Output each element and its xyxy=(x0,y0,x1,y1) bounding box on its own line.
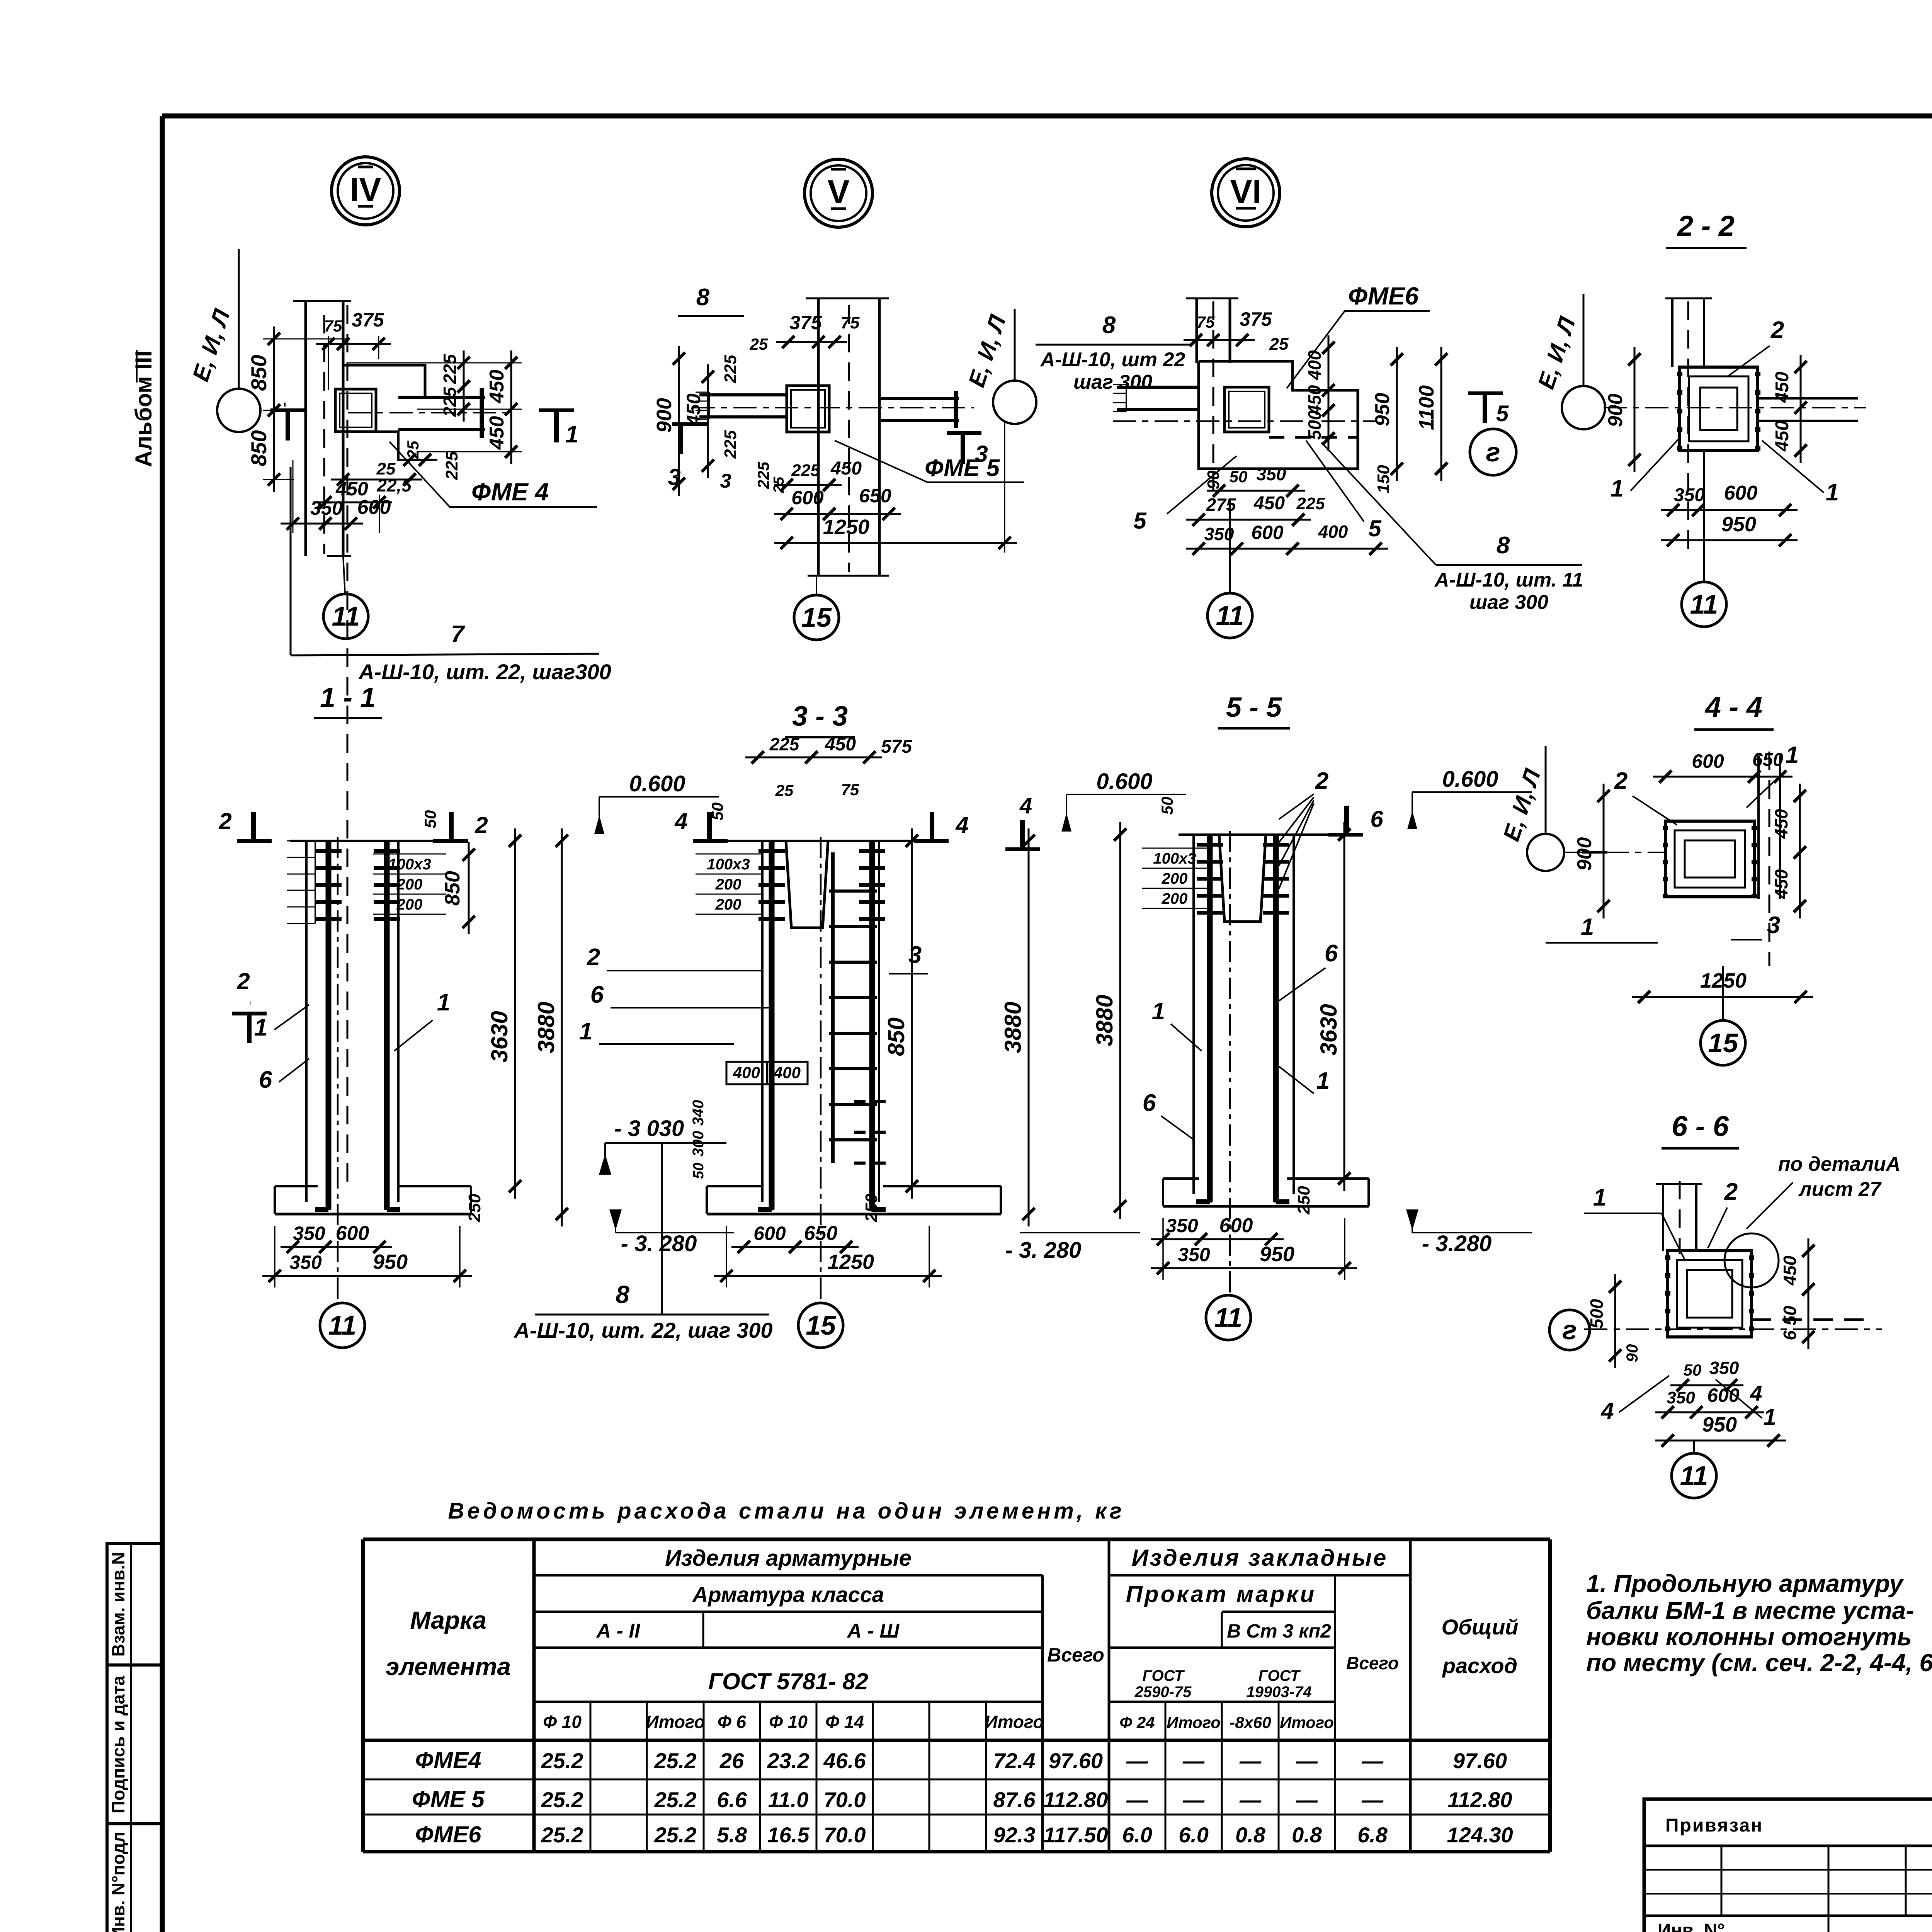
detail IV plan xyxy=(304,301,307,556)
svg-text:5: 5 xyxy=(1368,515,1382,541)
svg-text:75: 75 xyxy=(841,313,860,332)
svg-text:450: 450 xyxy=(1253,493,1285,514)
steel table grid xyxy=(363,1537,1550,1541)
svg-text:6.0: 6.0 xyxy=(1179,1823,1209,1847)
svg-text:ФМЕ 5: ФМЕ 5 xyxy=(925,455,1000,481)
svg-text:6.0: 6.0 xyxy=(1122,1823,1152,1847)
svg-text:2: 2 xyxy=(587,944,600,971)
svg-text:124.30: 124.30 xyxy=(1447,1823,1513,1847)
detail 2-2 dims xyxy=(1634,347,1636,472)
svg-text:600: 600 xyxy=(357,496,391,519)
svg-text:450: 450 xyxy=(486,416,508,450)
svg-text:7: 7 xyxy=(451,621,465,648)
svg-text:3880: 3880 xyxy=(1000,1002,1026,1053)
section 5-5 body xyxy=(1179,833,1355,836)
svg-text:2: 2 xyxy=(474,812,488,838)
svg-text:4: 4 xyxy=(955,812,968,838)
svg-text:шаг 300: шаг 300 xyxy=(1469,591,1548,614)
detail 6-6 dims xyxy=(1614,1274,1616,1368)
svg-text:—: — xyxy=(1239,1787,1262,1812)
svg-text:11: 11 xyxy=(1690,589,1718,619)
svg-text:350: 350 xyxy=(310,497,343,519)
svg-text:—: — xyxy=(1182,1748,1205,1773)
svg-text:4: 4 xyxy=(1019,793,1032,818)
svg-text:Ф 14: Ф 14 xyxy=(825,1712,864,1732)
svg-text:0.600: 0.600 xyxy=(1442,767,1498,792)
svg-text:200: 200 xyxy=(1162,890,1188,907)
svg-text:1100: 1100 xyxy=(1415,385,1438,430)
svg-text:26: 26 xyxy=(719,1748,744,1773)
svg-text:8: 8 xyxy=(616,1281,629,1308)
svg-text:275: 275 xyxy=(1206,495,1236,515)
left stamp boxes xyxy=(107,1544,162,1932)
svg-text:25: 25 xyxy=(1269,335,1289,354)
detail V dims xyxy=(776,341,847,343)
svg-text:950: 950 xyxy=(1260,1243,1294,1266)
svg-text:850: 850 xyxy=(247,355,271,391)
svg-text:2: 2 xyxy=(236,968,250,994)
svg-text:2: 2 xyxy=(218,808,231,834)
svg-text:0.8: 0.8 xyxy=(1292,1823,1322,1847)
svg-text:-8х60: -8х60 xyxy=(1230,1713,1271,1731)
svg-text:шаг 300: шаг 300 xyxy=(1073,371,1152,393)
svg-text:5: 5 xyxy=(1133,508,1147,534)
privyazan table xyxy=(1644,1799,1932,1932)
svg-text:1250: 1250 xyxy=(823,515,869,539)
svg-text:- 3.280: - 3.280 xyxy=(1422,1231,1492,1256)
svg-text:Ф 10: Ф 10 xyxy=(769,1712,808,1732)
svg-text:- 3 030: - 3 030 xyxy=(614,1116,684,1141)
svg-text:1. Продольную арматуру: 1. Продольную арматуру xyxy=(1586,1570,1904,1597)
svg-text:Альбом III: Альбом III xyxy=(131,350,156,467)
svg-text:Инв. N°подл: Инв. N°подл xyxy=(108,1832,128,1932)
svg-text:23.2: 23.2 xyxy=(767,1748,810,1773)
svg-text:1: 1 xyxy=(1611,475,1624,502)
detail IV axis circle E,I,L xyxy=(217,389,260,432)
svg-text:Прокат марки: Прокат марки xyxy=(1126,1581,1316,1607)
svg-text:Ф 24: Ф 24 xyxy=(1119,1713,1155,1731)
svg-text:2: 2 xyxy=(1614,768,1628,794)
svg-text:450: 450 xyxy=(683,393,704,426)
svg-text:375: 375 xyxy=(1240,308,1272,330)
svg-text:—: — xyxy=(1182,1787,1205,1812)
svg-text:5 - 5: 5 - 5 xyxy=(1226,692,1282,723)
svg-text:25.2: 25.2 xyxy=(654,1823,697,1847)
svg-text:—: — xyxy=(1361,1748,1384,1773)
svg-text:ФМЕ 4: ФМЕ 4 xyxy=(471,478,549,506)
svg-text:850: 850 xyxy=(883,1017,909,1056)
circle 11 under 6-6 xyxy=(1672,1453,1716,1498)
svg-text:Итого: Итого xyxy=(646,1712,705,1732)
svg-text:1: 1 xyxy=(1581,914,1594,940)
svg-text:15: 15 xyxy=(1708,1028,1738,1058)
svg-text:600: 600 xyxy=(753,1223,786,1244)
svg-text:100х3: 100х3 xyxy=(707,856,750,873)
svg-text:8: 8 xyxy=(1102,312,1116,338)
svg-text:IV: IV xyxy=(350,171,381,208)
svg-text:600: 600 xyxy=(336,1222,369,1245)
svg-text:г: г xyxy=(1562,1315,1577,1345)
svg-text:200: 200 xyxy=(396,896,423,913)
svg-text:50: 50 xyxy=(708,803,726,821)
svg-text:Итого: Итого xyxy=(1280,1713,1334,1731)
svg-text:900: 900 xyxy=(1604,394,1627,427)
circle g xyxy=(1470,429,1516,475)
svg-text:8: 8 xyxy=(1497,532,1510,559)
svg-text:150: 150 xyxy=(1374,465,1393,493)
svg-text:Привязан: Привязан xyxy=(1665,1815,1763,1836)
section 1-1 body xyxy=(290,840,460,842)
svg-text:400: 400 xyxy=(1304,350,1325,380)
svg-text:450: 450 xyxy=(1772,420,1793,452)
svg-text:225: 225 xyxy=(1296,494,1325,513)
detail 4-4 axis circle xyxy=(1527,834,1564,871)
svg-text:ГОСТ: ГОСТ xyxy=(1143,1667,1185,1684)
svg-text:25.2: 25.2 xyxy=(654,1787,697,1812)
svg-text:1: 1 xyxy=(1316,1068,1330,1094)
svg-text:600: 600 xyxy=(1251,522,1284,543)
circle g (6-6) xyxy=(1549,1310,1590,1350)
svg-text:350: 350 xyxy=(1667,1388,1695,1407)
svg-text:расход: расход xyxy=(1442,1653,1517,1678)
svg-text:0.8: 0.8 xyxy=(1235,1823,1266,1847)
svg-text:25.2: 25.2 xyxy=(654,1748,697,1773)
svg-text:87.6: 87.6 xyxy=(993,1787,1036,1812)
svg-text:70.0: 70.0 xyxy=(824,1787,866,1812)
svg-text:6: 6 xyxy=(1370,806,1383,832)
svg-text:А-Ш-10, шт 22: А-Ш-10, шт 22 xyxy=(1040,349,1185,371)
svg-text:ФМЕ6: ФМЕ6 xyxy=(415,1821,482,1847)
svg-text:850: 850 xyxy=(247,430,271,466)
svg-text:—: — xyxy=(1239,1748,1262,1773)
svg-text:8: 8 xyxy=(696,284,710,311)
svg-text:650: 650 xyxy=(804,1222,838,1245)
svg-text:1: 1 xyxy=(579,1018,592,1045)
svg-text:70.0: 70.0 xyxy=(824,1823,866,1847)
svg-text:250: 250 xyxy=(862,1194,881,1223)
svg-text:117.50: 117.50 xyxy=(1043,1823,1108,1847)
svg-text:25: 25 xyxy=(775,781,794,799)
svg-text:Общий: Общий xyxy=(1441,1615,1518,1639)
svg-text:350: 350 xyxy=(289,1252,322,1273)
svg-text:2: 2 xyxy=(1315,768,1328,794)
svg-text:1: 1 xyxy=(1763,1404,1776,1430)
svg-text:25.2: 25.2 xyxy=(541,1823,583,1847)
svg-text:ФМЕ6: ФМЕ6 xyxy=(1348,282,1419,310)
svg-text:Изделия закладные: Изделия закладные xyxy=(1132,1545,1388,1571)
svg-text:Марка: Марка xyxy=(410,1606,486,1634)
svg-text:6.6: 6.6 xyxy=(717,1787,747,1812)
FME5 label xyxy=(835,440,1024,482)
svg-text:46.6: 46.6 xyxy=(823,1748,866,1773)
svg-text:3880: 3880 xyxy=(1092,995,1117,1046)
svg-text:50: 50 xyxy=(421,810,439,828)
detail 4-4 plan xyxy=(1757,755,1760,899)
circle 11 under VI xyxy=(1207,593,1252,638)
cut marks 3 xyxy=(672,422,707,426)
svg-text:19903-74: 19903-74 xyxy=(1246,1684,1311,1701)
svg-text:375: 375 xyxy=(789,312,822,333)
svg-text:25: 25 xyxy=(750,335,768,353)
svg-text:72.4: 72.4 xyxy=(993,1748,1036,1773)
cut marks 1 xyxy=(284,403,286,406)
svg-text:650: 650 xyxy=(1752,750,1783,770)
svg-text:—: — xyxy=(1296,1748,1318,1773)
svg-text:900: 900 xyxy=(1573,837,1596,871)
circle 15 under 4-4 xyxy=(1701,1020,1745,1065)
labels 5 xyxy=(1167,456,1236,514)
FME4 label xyxy=(389,442,597,507)
svg-text:ГОСТ: ГОСТ xyxy=(1259,1667,1301,1684)
circle 15 under V xyxy=(794,595,839,640)
svg-text:225: 225 xyxy=(442,451,461,480)
svg-text:2: 2 xyxy=(1770,317,1784,344)
svg-text:11: 11 xyxy=(1216,600,1244,631)
svg-text:0.600: 0.600 xyxy=(629,771,685,796)
svg-text:97.60: 97.60 xyxy=(1049,1748,1103,1773)
svg-text:25: 25 xyxy=(404,440,422,459)
svg-text:новки колонны отогнуть: новки колонны отогнуть xyxy=(1586,1623,1912,1651)
svg-text:1: 1 xyxy=(1826,479,1839,506)
svg-text:5: 5 xyxy=(1496,401,1509,426)
svg-text:92.3: 92.3 xyxy=(993,1823,1036,1847)
circle 11 under IV xyxy=(323,594,368,639)
svg-text:11: 11 xyxy=(328,1310,357,1340)
svg-text:1: 1 xyxy=(565,421,578,448)
svg-text:2 - 2: 2 - 2 xyxy=(1677,210,1735,242)
svg-text:225: 225 xyxy=(440,354,460,384)
svg-text:450: 450 xyxy=(830,458,862,479)
svg-text:А - II: А - II xyxy=(596,1620,641,1642)
svg-text:4: 4 xyxy=(1600,1398,1614,1424)
sheet frame xyxy=(162,114,1932,119)
svg-text:—: — xyxy=(1296,1787,1318,1812)
svg-text:Ф 6: Ф 6 xyxy=(718,1712,747,1732)
svg-text:3: 3 xyxy=(1767,912,1780,939)
svg-text:2590-75: 2590-75 xyxy=(1134,1684,1192,1701)
circle 11 under section 1-1 xyxy=(320,1303,365,1348)
section 1-1 extras xyxy=(347,305,349,1182)
svg-text:400: 400 xyxy=(773,1063,801,1082)
svg-text:225: 225 xyxy=(440,386,460,417)
svg-text:г: г xyxy=(1486,437,1500,467)
circle 11 under section 5-5 xyxy=(1206,1295,1251,1340)
svg-text:1: 1 xyxy=(254,1014,267,1041)
detail VI circle xyxy=(1212,159,1280,227)
svg-text:6 50: 6 50 xyxy=(1780,1306,1800,1340)
svg-text:А-Ш-10, шт. 11: А-Ш-10, шт. 11 xyxy=(1434,569,1583,591)
svg-text:450: 450 xyxy=(1771,809,1791,839)
svg-text:ГОСТ 5781- 82: ГОСТ 5781- 82 xyxy=(708,1668,868,1694)
svg-text:В Ст 3 кп2: В Ст 3 кп2 xyxy=(1227,1620,1331,1642)
svg-text:350: 350 xyxy=(1674,485,1705,505)
svg-text:—: — xyxy=(1126,1748,1148,1773)
svg-text:600: 600 xyxy=(1219,1214,1253,1237)
detail 2-2 axis circle xyxy=(1562,386,1605,429)
svg-text:950: 950 xyxy=(1721,513,1756,536)
svg-text:225: 225 xyxy=(791,461,820,480)
svg-text:ФМЕ 5: ФМЕ 5 xyxy=(412,1786,485,1812)
svg-text:6 - 6: 6 - 6 xyxy=(1672,1110,1729,1142)
svg-text:15: 15 xyxy=(801,602,832,633)
svg-text:5.8: 5.8 xyxy=(717,1823,747,1847)
detail V axis circle xyxy=(993,381,1036,424)
svg-text:950: 950 xyxy=(1702,1413,1737,1436)
svg-text:90: 90 xyxy=(1623,1344,1641,1362)
svg-text:- 3. 280: - 3. 280 xyxy=(1005,1238,1082,1263)
svg-text:11.0: 11.0 xyxy=(768,1787,809,1812)
svg-text:А-Ш-10, шт. 22, шаг300: А-Ш-10, шт. 22, шаг300 xyxy=(358,660,611,684)
svg-text:450: 450 xyxy=(1771,869,1791,899)
svg-text:75: 75 xyxy=(1197,313,1215,331)
svg-text:340: 340 xyxy=(690,1100,707,1126)
svg-text:600: 600 xyxy=(1724,482,1758,504)
svg-text:350: 350 xyxy=(1257,464,1286,484)
svg-text:300: 300 xyxy=(690,1131,707,1157)
svg-text:по деталиА: по деталиА xyxy=(1778,1153,1901,1175)
svg-text:400: 400 xyxy=(1318,522,1348,542)
detail VI plan xyxy=(1196,298,1198,363)
svg-text:3880: 3880 xyxy=(533,1002,559,1053)
svg-text:1: 1 xyxy=(1152,998,1165,1025)
section 3-3 body xyxy=(722,840,941,842)
svg-text:200: 200 xyxy=(715,876,742,893)
svg-text:3: 3 xyxy=(720,470,731,492)
svg-text:350: 350 xyxy=(293,1223,325,1244)
svg-text:400: 400 xyxy=(733,1063,760,1082)
svg-text:225: 225 xyxy=(721,355,740,384)
svg-text:4: 4 xyxy=(674,808,687,834)
svg-text:375: 375 xyxy=(352,309,384,331)
callout 7 xyxy=(290,467,292,655)
svg-text:50: 50 xyxy=(1158,797,1176,815)
svg-text:6.8: 6.8 xyxy=(1357,1823,1388,1847)
svg-text:- 3. 280: - 3. 280 xyxy=(621,1231,697,1256)
section 3-3 extras xyxy=(696,854,761,855)
svg-text:V: V xyxy=(827,173,849,211)
svg-text:1: 1 xyxy=(437,989,450,1016)
svg-text:—: — xyxy=(1126,1787,1148,1812)
svg-text:575: 575 xyxy=(881,736,912,757)
svg-text:350: 350 xyxy=(1709,1358,1739,1378)
circle 11 under 2-2 xyxy=(1682,582,1726,627)
svg-text:650: 650 xyxy=(859,485,891,507)
svg-text:112.80: 112.80 xyxy=(1043,1787,1108,1812)
detail 4-4 dims xyxy=(1653,776,1793,778)
svg-text:4 - 4: 4 - 4 xyxy=(1704,691,1762,723)
svg-text:97.60: 97.60 xyxy=(1453,1748,1507,1773)
svg-text:3: 3 xyxy=(908,942,922,968)
svg-text:11: 11 xyxy=(332,601,360,631)
svg-text:50: 50 xyxy=(1230,468,1248,486)
svg-text:450: 450 xyxy=(1780,1255,1800,1286)
svg-text:Ф 10: Ф 10 xyxy=(543,1712,582,1732)
svg-text:Всего: Всего xyxy=(1346,1653,1399,1673)
svg-text:50: 50 xyxy=(1684,1361,1702,1379)
detail 6-6 plan xyxy=(1662,1184,1664,1251)
section 5-5 extras xyxy=(1142,848,1207,849)
svg-text:450: 450 xyxy=(486,370,508,404)
svg-text:350: 350 xyxy=(1166,1215,1198,1236)
svg-text:А - Ш: А - Ш xyxy=(847,1620,900,1642)
svg-text:100х3: 100х3 xyxy=(388,856,431,873)
svg-text:11: 11 xyxy=(1680,1461,1708,1491)
svg-text:600: 600 xyxy=(791,487,824,509)
svg-text:—: — xyxy=(1361,1787,1384,1812)
svg-text:Ведомость расхода стали на оди: Ведомость расхода стали на один элемент,… xyxy=(448,1498,1124,1524)
svg-text:VI: VI xyxy=(1230,173,1261,210)
circle 15 under section 3-3 xyxy=(798,1303,843,1348)
svg-text:3630: 3630 xyxy=(486,1011,512,1062)
svg-text:3 - 3: 3 - 3 xyxy=(792,701,848,732)
svg-text:лист 27: лист 27 xyxy=(1798,1178,1882,1201)
svg-text:Всего: Всего xyxy=(1047,1644,1104,1666)
svg-text:850: 850 xyxy=(441,871,464,906)
svg-text:1: 1 xyxy=(1593,1184,1606,1211)
svg-text:6: 6 xyxy=(259,1066,272,1093)
svg-text:11: 11 xyxy=(1214,1303,1243,1333)
svg-text:по месту (см. сеч. 2-2, 4-4,: по месту (см. сеч. 2-2, 4-4, 6-6) xyxy=(1586,1649,1932,1677)
detail VI dims xyxy=(1184,339,1255,341)
detail IV circle xyxy=(332,157,400,225)
detail V plan xyxy=(817,298,820,576)
svg-text:250: 250 xyxy=(1294,1186,1313,1215)
detail V circle xyxy=(804,159,872,227)
svg-text:22,5: 22,5 xyxy=(376,475,412,495)
svg-text:950: 950 xyxy=(1371,393,1394,427)
svg-text:3: 3 xyxy=(668,464,680,490)
svg-text:225: 225 xyxy=(754,461,772,489)
svg-text:Итого: Итого xyxy=(1167,1713,1221,1731)
svg-text:6: 6 xyxy=(590,981,604,1008)
svg-text:225: 225 xyxy=(769,734,800,754)
svg-text:15: 15 xyxy=(806,1310,836,1340)
svg-text:Изделия арматурные: Изделия арматурные xyxy=(665,1546,912,1571)
svg-text:450: 450 xyxy=(825,734,856,755)
svg-text:450: 450 xyxy=(1772,372,1793,403)
FME6 label xyxy=(1287,311,1430,388)
svg-text:элемента: элемента xyxy=(386,1653,511,1680)
svg-text:900: 900 xyxy=(653,398,676,433)
svg-text:2: 2 xyxy=(1724,1179,1738,1205)
svg-text:1: 1 xyxy=(1786,742,1799,769)
svg-text:А-Ш-10, шт. 22, шаг 300: А-Ш-10, шт. 22, шаг 300 xyxy=(513,1318,772,1342)
svg-text:200: 200 xyxy=(396,876,423,893)
svg-text:50: 50 xyxy=(690,1163,707,1179)
svg-text:3630: 3630 xyxy=(1316,1004,1342,1055)
svg-text:200: 200 xyxy=(1162,870,1188,887)
svg-text:0.600: 0.600 xyxy=(1096,769,1152,794)
detail 2-2 plan xyxy=(1671,298,1673,367)
svg-text:112.80: 112.80 xyxy=(1447,1787,1512,1812)
svg-text:500: 500 xyxy=(1304,410,1325,440)
svg-text:6: 6 xyxy=(1143,1090,1156,1116)
svg-text:ФМЕ4: ФМЕ4 xyxy=(415,1747,481,1773)
svg-text:Подпись и дата: Подпись и дата xyxy=(108,1675,128,1813)
svg-text:16.5: 16.5 xyxy=(767,1823,810,1847)
svg-text:250: 250 xyxy=(465,1194,484,1223)
svg-text:950: 950 xyxy=(373,1250,408,1274)
svg-text:1250: 1250 xyxy=(828,1250,874,1274)
svg-text:Взам. инв.N: Взам. инв.N xyxy=(108,1552,128,1657)
svg-text:6: 6 xyxy=(1325,940,1338,967)
svg-text:600: 600 xyxy=(1692,750,1724,772)
svg-text:225: 225 xyxy=(721,430,740,459)
svg-text:балки БМ-1 в месте уста-: балки БМ-1 в месте уста- xyxy=(1586,1597,1914,1624)
svg-text:25.2: 25.2 xyxy=(541,1748,583,1773)
svg-text:75: 75 xyxy=(324,317,342,335)
svg-text:75: 75 xyxy=(841,781,859,799)
